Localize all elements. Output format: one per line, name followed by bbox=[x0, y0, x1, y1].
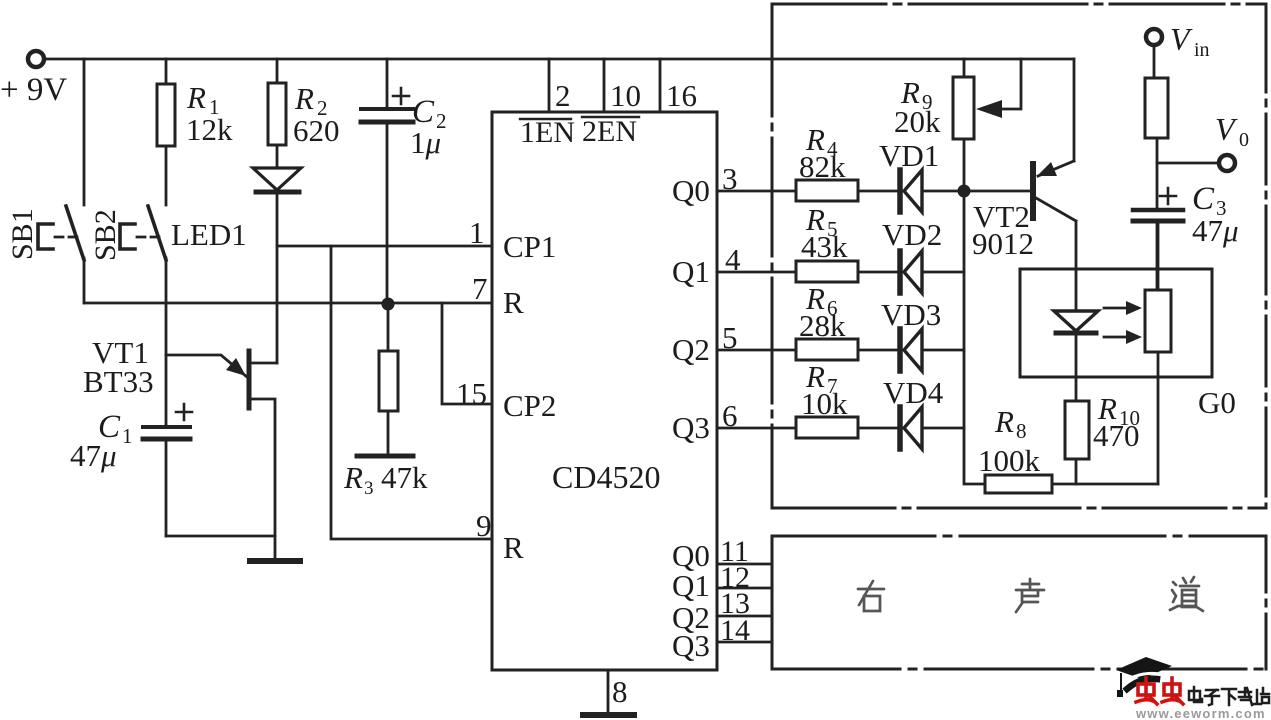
LED in G0 bbox=[1075, 269, 1078, 311]
svg-text:Q0: Q0 bbox=[672, 173, 710, 208]
svg-text:5: 5 bbox=[722, 320, 738, 355]
svg-text:6: 6 bbox=[722, 398, 738, 433]
svg-text:+ 9V: + 9V bbox=[0, 72, 67, 108]
hanzi sheng (sound) bbox=[1016, 579, 1044, 612]
svg-text:SB1: SB1 bbox=[6, 208, 39, 260]
svg-text:in: in bbox=[1194, 39, 1210, 61]
wire SB1 to R-line bbox=[83, 258, 86, 303]
svg-text:100k: 100k bbox=[978, 443, 1041, 478]
wire R line pin7 bbox=[84, 302, 492, 305]
svg-text:1μ: 1μ bbox=[410, 125, 441, 160]
logo cap bbox=[1116, 657, 1172, 679]
transistor VT1 emitter bbox=[166, 355, 247, 377]
node dot diode bus bbox=[958, 185, 971, 198]
wires pins 11-14 bbox=[717, 563, 772, 566]
svg-text:CP1: CP1 bbox=[503, 229, 556, 264]
svg-text:3: 3 bbox=[722, 161, 738, 196]
overline 2EN bbox=[582, 116, 639, 118]
hanzi you (right) bbox=[858, 581, 884, 605]
svg-text:R: R bbox=[294, 81, 314, 116]
svg-text:9: 9 bbox=[476, 508, 492, 543]
svg-text:620: 620 bbox=[293, 113, 340, 148]
resistor R5 bbox=[796, 261, 858, 282]
wire R7 to VD4 bbox=[858, 427, 897, 430]
capacitor C3 bbox=[1156, 163, 1159, 208]
svg-text:2EN: 2EN bbox=[582, 115, 637, 148]
svg-text:14: 14 bbox=[720, 614, 750, 647]
resistor Vin series bbox=[1145, 78, 1168, 138]
wire LED1 cathode down to VT1 base1 bbox=[276, 192, 279, 363]
transistor VT1 base2 lead bbox=[249, 399, 275, 536]
switch SB2 bbox=[148, 206, 166, 260]
svg-text:CD4520: CD4520 bbox=[552, 459, 660, 495]
svg-text:8: 8 bbox=[612, 674, 628, 709]
svg-text:VD2: VD2 bbox=[882, 217, 942, 252]
logo text dianzi xiazaizhan bbox=[1189, 687, 1269, 705]
svg-text:VD4: VD4 bbox=[883, 375, 944, 410]
svg-text:BT33: BT33 bbox=[83, 364, 154, 399]
svg-text:3: 3 bbox=[364, 478, 374, 499]
svg-text:12k: 12k bbox=[186, 112, 233, 147]
resistor R6 bbox=[796, 339, 858, 360]
svg-text:8: 8 bbox=[1016, 419, 1027, 443]
wire Q3 pin6 bbox=[717, 427, 796, 430]
ground VT1 bbox=[274, 536, 277, 557]
wire Q2 pin5 bbox=[717, 349, 796, 352]
svg-text:Q1: Q1 bbox=[672, 254, 710, 289]
resistor R3 bbox=[387, 304, 390, 351]
wire pin10 stub bbox=[603, 59, 606, 112]
svg-text:47μ: 47μ bbox=[1192, 213, 1239, 248]
svg-text:47k: 47k bbox=[381, 460, 428, 495]
resistor R9 pot bbox=[963, 59, 966, 77]
svg-text:R: R bbox=[343, 460, 363, 495]
terminal +9V bbox=[28, 51, 44, 67]
diode VD4 bbox=[897, 407, 903, 449]
svg-text:R: R bbox=[503, 285, 524, 320]
svg-text:Q3: Q3 bbox=[672, 410, 710, 445]
wire pin2 stub bbox=[548, 59, 551, 112]
transistor VT2 bar bbox=[1030, 164, 1036, 218]
svg-text:1EN: 1EN bbox=[520, 116, 575, 149]
IC CD4520 box U1 bbox=[492, 112, 717, 670]
svg-text:1: 1 bbox=[469, 215, 485, 250]
svg-text:LED1: LED1 bbox=[171, 217, 247, 252]
wire R6 to VD3 bbox=[858, 349, 897, 352]
wire SB2 down to C1 bbox=[165, 258, 168, 425]
wire bottom rail G0 bbox=[1052, 483, 1158, 486]
hanzi dao (channel) bbox=[1180, 577, 1199, 586]
overline 1EN bbox=[520, 118, 571, 120]
dash-dot box upper right bbox=[772, 4, 1266, 508]
svg-text:V: V bbox=[1215, 111, 1238, 147]
wire Q1 pin4 bbox=[717, 271, 796, 274]
wire R5 to VD2 bbox=[858, 271, 897, 274]
diode VD1 bbox=[897, 170, 903, 212]
node junction dot bbox=[382, 298, 395, 311]
svg-text:www.eeworm.com: www.eeworm.com bbox=[1135, 706, 1266, 720]
svg-text:C: C bbox=[1192, 181, 1215, 217]
resistor R8 bbox=[985, 475, 1052, 493]
wire bottom left bbox=[166, 535, 275, 538]
arrows to photocell bbox=[1104, 308, 1127, 337]
capacitor C2 bbox=[386, 59, 389, 107]
wiper R9 arrow bbox=[1001, 59, 1021, 109]
wire diode bus bbox=[964, 191, 985, 484]
svg-text:10k: 10k bbox=[801, 386, 848, 421]
wire R4 to VD1 bbox=[858, 190, 897, 193]
transistor VT2 emitter bbox=[1038, 59, 1074, 176]
wire pin8 stub bbox=[607, 670, 610, 713]
svg-text:SB2: SB2 bbox=[89, 209, 122, 261]
wire SB1 drop bbox=[83, 59, 86, 205]
svg-text:28k: 28k bbox=[799, 308, 846, 343]
transistor VT1 bar bbox=[247, 351, 252, 408]
wire VT2 base bbox=[970, 190, 1031, 193]
diode VD2 bbox=[897, 251, 903, 293]
svg-text:0: 0 bbox=[1239, 129, 1249, 151]
optocoupler G0 box bbox=[1020, 269, 1212, 377]
resistor R4 bbox=[796, 180, 858, 201]
svg-text:47μ: 47μ bbox=[70, 438, 117, 473]
svg-text:R: R bbox=[503, 530, 524, 565]
wire CP1 line bbox=[277, 245, 492, 248]
svg-text:4: 4 bbox=[725, 242, 741, 277]
svg-text:VD3: VD3 bbox=[881, 297, 941, 332]
wire pin16 stub bbox=[659, 59, 662, 112]
resistor R1 bbox=[165, 59, 168, 84]
resistor R10 bbox=[1065, 401, 1089, 459]
svg-text:VD1: VD1 bbox=[879, 138, 939, 173]
photoresistor in G0 bbox=[1145, 290, 1171, 352]
svg-text:7: 7 bbox=[472, 271, 488, 306]
svg-text:470: 470 bbox=[1093, 418, 1140, 453]
svg-text:Q3: Q3 bbox=[672, 628, 710, 663]
svg-text:2: 2 bbox=[555, 78, 571, 113]
svg-text:V: V bbox=[1170, 21, 1193, 57]
svg-text:82k: 82k bbox=[799, 149, 846, 184]
svg-text:Q1: Q1 bbox=[672, 568, 710, 603]
svg-text:15: 15 bbox=[456, 376, 487, 411]
transistor VT2 collector bbox=[1036, 198, 1076, 269]
svg-text:R: R bbox=[186, 80, 206, 115]
wire Q0 pin3 bbox=[717, 190, 796, 193]
svg-text:16: 16 bbox=[666, 78, 697, 113]
svg-text:R: R bbox=[994, 404, 1014, 439]
svg-text:Q2: Q2 bbox=[672, 332, 710, 367]
LED1 diode bbox=[253, 168, 301, 190]
svg-text:1: 1 bbox=[122, 424, 133, 448]
logo chongchong red bbox=[1136, 678, 1183, 704]
transistor VT1 base1 lead bbox=[249, 362, 277, 365]
terminal Vin bbox=[1146, 29, 1162, 45]
resistor R2 bbox=[276, 59, 279, 83]
svg-text:10: 10 bbox=[610, 78, 641, 113]
svg-text:CP2: CP2 bbox=[503, 388, 556, 423]
svg-text:9012: 9012 bbox=[972, 226, 1034, 261]
diode VD3 bbox=[897, 329, 903, 371]
ground pin8 bbox=[583, 712, 634, 718]
terminal V0 bbox=[1157, 162, 1219, 165]
resistor R7 bbox=[796, 417, 858, 438]
wire loop to pin9 bbox=[331, 246, 492, 539]
wire top rail bbox=[45, 58, 1074, 61]
switch SB1 bbox=[66, 206, 84, 260]
wire CP2 jog bbox=[442, 303, 492, 404]
svg-text:20k: 20k bbox=[894, 104, 941, 139]
dash-dot box right channel bbox=[772, 536, 1266, 669]
capacitor C1 bbox=[165, 425, 168, 426]
svg-text:43k: 43k bbox=[801, 229, 848, 264]
svg-text:G0: G0 bbox=[1198, 385, 1236, 420]
